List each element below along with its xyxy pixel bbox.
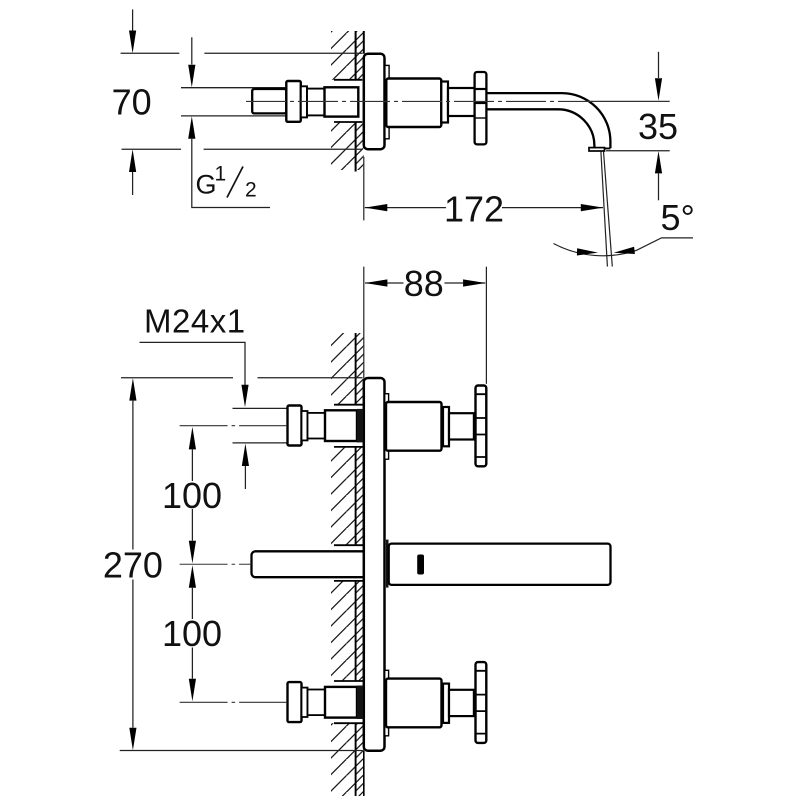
disc behind spout body xyxy=(385,65,389,138)
svg-text:M24x1: M24x1 xyxy=(144,302,246,339)
dimension 100 lower xyxy=(162,565,222,701)
dimension 88 xyxy=(365,263,487,384)
spout step ring xyxy=(441,82,448,123)
blade division lines xyxy=(475,88,487,90)
bottom valve disc xyxy=(385,670,389,736)
dimension 172 xyxy=(365,188,604,229)
spout body xyxy=(386,79,441,128)
flange escutcheon (top drawing) xyxy=(364,54,385,150)
wall hole edges bottom valve xyxy=(334,681,363,723)
spout in-wall bar xyxy=(252,551,367,577)
svg-text:88: 88 xyxy=(404,263,444,304)
angle 5 deg xyxy=(554,197,695,256)
bottom valve handle divisions xyxy=(476,671,487,734)
supply nipple xyxy=(252,89,286,113)
bottom valve thread xyxy=(308,690,326,716)
bottom valve gasket strip xyxy=(357,686,363,720)
top valve handle divisions xyxy=(476,394,487,457)
top valve handle bar xyxy=(476,386,487,467)
GROHE logo engraving xyxy=(417,555,424,575)
washer xyxy=(301,86,307,117)
svg-text:35: 35 xyxy=(638,106,678,147)
svg-text:100: 100 xyxy=(162,613,222,654)
water stream xyxy=(601,152,612,267)
bottom valve washer xyxy=(302,688,308,717)
svg-text:5°: 5° xyxy=(661,197,695,238)
spout neck xyxy=(448,88,475,116)
valve body through wall xyxy=(325,87,359,116)
wall hole edges spout xyxy=(334,545,363,581)
spout flange gasket strip xyxy=(386,540,389,588)
top valve collar xyxy=(288,406,302,446)
wall face line (top drawing) xyxy=(355,31,357,172)
top valve M24 tube thin lines xyxy=(233,408,287,443)
top valve thread xyxy=(308,413,326,439)
bottom valve stem xyxy=(449,690,474,716)
bottom valve handle bar xyxy=(476,662,487,743)
thread section xyxy=(307,89,325,116)
centerline bottom valve xyxy=(180,701,287,703)
bottom valve body xyxy=(325,687,357,718)
dimension 100 upper xyxy=(162,427,222,563)
svg-text:G: G xyxy=(196,170,217,200)
centerline (top drawing) xyxy=(246,100,585,102)
collar xyxy=(286,81,301,122)
svg-text:270: 270 xyxy=(103,545,163,586)
top valve disc xyxy=(385,394,389,460)
wall face line (bottom drawing) xyxy=(355,333,357,796)
top valve body xyxy=(325,410,357,441)
svg-text:100: 100 xyxy=(162,475,222,516)
bottom valve collar xyxy=(288,682,302,722)
svg-text:70: 70 xyxy=(112,82,152,123)
dimension 70 xyxy=(112,9,363,195)
wall hole edges top valve xyxy=(334,405,363,447)
bottom valve housing xyxy=(386,679,442,728)
label M24x1 xyxy=(140,302,250,489)
extension line below flange (172 left) xyxy=(363,157,365,220)
top valve stem xyxy=(449,413,474,439)
wall hatch (top drawing) xyxy=(331,31,364,170)
thread crest lines G1/2 xyxy=(181,88,287,116)
finished wall line above flange xyxy=(363,31,365,54)
svg-text:172: 172 xyxy=(444,188,504,229)
centerline spout xyxy=(180,563,252,565)
wall hatch (bottom drawing) xyxy=(331,333,364,796)
top valve gasket strip xyxy=(357,409,363,443)
centerline top valve xyxy=(180,425,287,427)
top valve housing xyxy=(386,402,442,451)
wall hole edges (top drawing) xyxy=(334,80,362,122)
dimension 35 xyxy=(606,52,678,201)
aerator xyxy=(589,148,605,151)
svg-text:1: 1 xyxy=(215,162,227,185)
mounting plate xyxy=(364,378,385,751)
centerline extension for 35 xyxy=(585,100,670,102)
dimension 270 xyxy=(103,378,363,751)
top valve step xyxy=(443,407,449,446)
bottom valve step xyxy=(443,684,449,723)
spout tube with curved outlet xyxy=(486,93,610,148)
dimension G 1/2 xyxy=(188,37,270,207)
88 left extension line xyxy=(363,267,365,378)
spout outer bar xyxy=(389,544,611,585)
spout vertical blade xyxy=(475,72,487,144)
outlet bottom xyxy=(593,147,611,149)
top valve washer xyxy=(302,411,308,440)
svg-text:2: 2 xyxy=(245,178,257,201)
finished wall line below plate xyxy=(363,751,365,796)
